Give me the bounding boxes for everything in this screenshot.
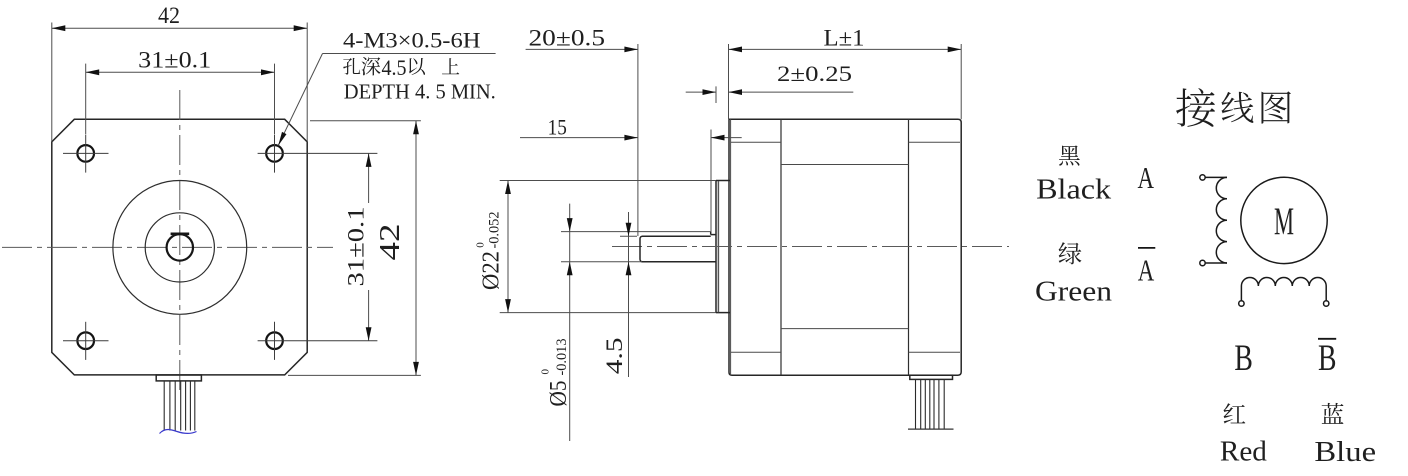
motor circle M [1241,177,1327,263]
front view vertical centerline [179,90,181,394]
svg-text:M: M [1274,200,1294,243]
pilot boss circle diameter 22 [113,181,247,315]
svg-text:DEPTH 4. 5 MIN.: DEPTH 4. 5 MIN. [344,80,496,104]
leader note line for M3 holes [323,53,496,55]
dimension 20±0.5: line and arrows [526,47,638,53]
note text 孔深4.5以上 [343,58,360,75]
svg-text:B: B [1318,338,1337,379]
svg-text:Blue: Blue [1314,437,1376,468]
dimension text 4.5 (rotated) [602,338,627,375]
svg-text:31±0.1: 31±0.1 [138,48,211,73]
svg-text:4.5: 4.5 [382,55,407,80]
hub circle [145,213,214,282]
dimension 2±0.25: arrows and lines [686,89,854,95]
dimension 4.5: extension line [620,235,637,237]
dimension Ø5: dimension line with arrows [567,204,573,441]
svg-text:31±0.1: 31±0.1 [344,207,369,287]
mounting hole M3 top-right [258,135,378,173]
side view stator chamfer lines [781,164,909,166]
dimension 31±0.1 top: dimension line with arrows [86,69,275,75]
dimension Ø22: extension lines [500,180,716,182]
svg-text:2±0.25: 2±0.25 [777,61,852,86]
dimension 31±0.1 top: extension lines [85,64,87,134]
svg-text:20±0.5: 20±0.5 [529,25,606,50]
label 黑 [1059,145,1080,165]
svg-text:4.5: 4.5 [602,338,627,375]
shaft circle diameter 5 with flat [167,234,193,260]
svg-text:Green: Green [1035,276,1112,307]
svg-text:-0.013: -0.013 [554,339,570,376]
extension line boss face short [715,86,717,103]
svg-text:Black: Black [1036,175,1111,206]
extension line body front face (up) [728,44,730,119]
label 绿 [1059,242,1082,264]
svg-text:15: 15 [548,115,567,140]
dimension 42 top: dimension line with arrows [52,25,307,31]
svg-text:Ø22: Ø22 [479,251,505,290]
front lead wires [164,381,195,431]
svg-text:0: 0 [540,369,552,375]
front wire break line (blue wavy) [160,430,197,434]
leader arrowhead at top-right hole [278,132,286,146]
terminal circle A [1200,175,1205,180]
terminal circle A-bar [1200,260,1205,265]
terminal circle B [1239,301,1244,306]
dimension text 42 right (rotated) [375,224,406,261]
terminal circle B-bar [1324,301,1329,306]
phase A winding (vertical coil) [1205,177,1227,263]
svg-text:B: B [1234,338,1253,379]
svg-text:Red: Red [1220,436,1267,467]
dimension 31±0.1 right: dimension line with arrows [366,153,372,340]
dimension 15: lines and arrows [520,135,742,141]
dimension Ø5: extension lines [561,231,711,233]
mounting hole M3 bottom-left [63,322,109,360]
dimension 42 top: extension lines [51,23,53,142]
extension line body rear face (up) [960,44,962,119]
svg-text:Ø5: Ø5 [546,381,572,407]
phase B winding (horizontal coil) [1241,278,1326,301]
side lead-wire connector block [910,375,953,379]
wiring diagram title 接线图 [1176,88,1215,127]
shaft axis centerline [612,246,1009,248]
svg-text:-0.052: -0.052 [487,212,503,249]
svg-text:A: A [1138,160,1155,195]
svg-text:42: 42 [375,224,406,261]
svg-text:42: 42 [158,3,180,28]
front view horizontal centerline [2,246,333,248]
svg-text:4-M3×0.5-6H: 4-M3×0.5-6H [343,27,481,52]
dimension 42 right: dimension line with arrows [413,121,419,376]
side wire break line [908,428,954,430]
label 红 [1224,403,1246,423]
label 蓝 [1322,403,1344,424]
side view cap chamfer lines [731,141,781,143]
dimension text 31±0.1 right (rotated) [344,207,369,287]
shaft outline with flat [640,232,716,262]
dimension 4.5: dimension line with arrows [626,212,632,377]
dimension 42 right: extension lines [310,120,421,122]
mounting hole M3 top-left [63,135,109,173]
extension line shaft end [637,44,639,236]
mounting hole M3 bottom-right [258,322,378,360]
side view front face double line [730,119,732,375]
pilot boss (2mm) rectangle [716,181,730,313]
svg-text:L±1: L±1 [824,25,865,50]
svg-text:A: A [1138,252,1155,287]
dimension text Ø5 0/-0.013 (rotated) [546,381,572,407]
extension line flat end [710,130,712,232]
side view body outline [729,119,962,375]
dimension L±1: line and arrows [729,47,962,53]
front lead-wire connector block [156,375,201,381]
svg-text:0: 0 [475,242,487,248]
motor front view: square body with chamfered corners [52,119,307,375]
side lead wires [916,379,945,429]
side view end-cap division lines [780,119,782,375]
dimension text Ø22 0/-0.052 (rotated) [479,251,505,290]
dimension Ø22: dimension line with arrows [505,181,511,313]
